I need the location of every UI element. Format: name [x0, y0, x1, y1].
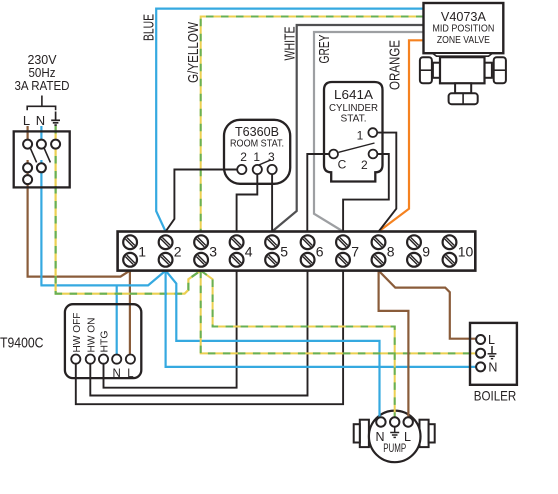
svg-text:10: 10	[458, 244, 474, 260]
wire: terminal 8 to pump L brown	[379, 271, 409, 419]
svg-text:5: 5	[280, 244, 288, 260]
wire: valve orange to terminal 8	[379, 40, 424, 231]
zone valve body icon	[420, 53, 506, 104]
svg-text:L641A: L641A	[334, 87, 373, 102]
svg-text:G/YELLOW: G/YELLOW	[185, 21, 202, 83]
ground symbol at boiler	[488, 346, 497, 359]
svg-text:HTG: HTG	[99, 331, 111, 353]
ground symbol at pump	[390, 427, 399, 438]
svg-text:N: N	[488, 361, 497, 375]
svg-text:9: 9	[422, 244, 430, 260]
ground symbol at supply	[51, 112, 60, 126]
cylinder stat L641A	[324, 82, 383, 182]
svg-text:L: L	[23, 113, 30, 128]
svg-text:L: L	[488, 333, 495, 347]
svg-text:T9400C: T9400C	[0, 335, 44, 352]
svg-text:N: N	[113, 368, 121, 380]
room stat T6360B	[224, 120, 290, 184]
svg-text:MID POSITION: MID POSITION	[432, 23, 494, 35]
wire: valve g/yellow to terminal 3	[201, 17, 424, 232]
power supply rating label	[15, 52, 70, 93]
svg-text:2: 2	[240, 150, 247, 164]
wire: supply N blue	[40, 126, 165, 359]
wire: earth terminal 3 to pump earth	[201, 271, 395, 419]
terminal 9 screws	[407, 235, 430, 266]
power supply isolator box	[14, 131, 70, 187]
svg-text:3: 3	[209, 244, 217, 260]
terminal 10 screws	[443, 235, 474, 266]
wire: valve grey to terminal 7	[314, 32, 424, 232]
pump body fill	[369, 411, 421, 463]
zone valve V4073A label box	[424, 3, 504, 53]
terminal strip junction box border	[118, 232, 476, 271]
programmer T9400C	[65, 304, 141, 380]
svg-text:ZONE VALVE: ZONE VALVE	[437, 34, 490, 46]
wire: terminal 7 to programmer HW OFF	[76, 271, 343, 405]
svg-text:2: 2	[361, 158, 368, 172]
power supply bracket	[27, 96, 55, 111]
svg-text:3A RATED: 3A RATED	[15, 78, 70, 93]
wire: valve white to terminal 5	[272, 25, 423, 232]
svg-text:1: 1	[253, 150, 260, 164]
terminal 4 screws	[230, 235, 253, 266]
svg-text:1: 1	[138, 244, 146, 260]
wire: terminal 4 to programmer HTG	[104, 271, 237, 388]
svg-text:BLUE: BLUE	[141, 14, 158, 41]
wire: room stat 1 to terminal 4	[237, 173, 258, 232]
wire: room stat 2 to terminal 2 (anticipator neutral)	[166, 170, 242, 232]
svg-text:GREY: GREY	[316, 35, 333, 64]
svg-text:7: 7	[351, 244, 359, 260]
terminal 5 screws	[265, 235, 288, 266]
svg-text:3: 3	[268, 150, 275, 164]
svg-text:8: 8	[387, 244, 395, 260]
svg-text:ROOM STAT.: ROOM STAT.	[230, 138, 284, 150]
wire: cylinder stat 2 to terminal 7	[343, 154, 389, 232]
svg-text:C: C	[338, 158, 347, 172]
boiler box	[470, 323, 517, 385]
wire: neutral terminal 2 to pump N	[166, 271, 380, 419]
wire: neutral bus terminal 2 to boiler N	[166, 271, 481, 367]
svg-text:BOILER: BOILER	[474, 388, 517, 404]
svg-text:PUMP: PUMP	[383, 441, 406, 455]
svg-text:ORANGE: ORANGE	[387, 40, 404, 90]
svg-text:STAT.: STAT.	[341, 112, 367, 124]
terminal 3 screws	[194, 235, 217, 266]
terminal 1 screws	[123, 235, 146, 266]
svg-text:N: N	[36, 113, 45, 128]
wire: room stat 3 to terminal 5	[271, 173, 273, 232]
wire: terminal 6 to programmer HW ON	[90, 271, 307, 396]
pump flange tabs	[354, 420, 435, 447]
svg-text:1: 1	[357, 129, 364, 143]
white fills of component bodies (drawn beneath wires)	[14, 82, 517, 385]
svg-text:HW OFF: HW OFF	[71, 313, 83, 353]
svg-text:6: 6	[316, 244, 324, 260]
wire: terminal 8 to boiler L brown	[379, 271, 481, 339]
wire: earth bus terminal 3 to boiler earth	[201, 271, 481, 354]
wire: valve blue to terminal 2	[156, 9, 423, 232]
terminal 8 screws	[372, 235, 395, 266]
wire: cylinder stat C to terminal 6	[307, 154, 333, 232]
svg-text:HW ON: HW ON	[85, 318, 97, 353]
svg-text:L: L	[127, 368, 134, 380]
terminal 7 screws	[336, 235, 359, 266]
svg-text:WHITE: WHITE	[282, 27, 299, 61]
wire: supply earth green/yellow	[55, 126, 201, 294]
wire: cylinder stat 1 to terminal 8	[373, 133, 397, 232]
svg-text:2: 2	[174, 244, 182, 260]
terminal 2 screws	[159, 235, 182, 266]
terminal 6 screws	[301, 235, 324, 266]
pump body outline	[375, 417, 412, 455]
wire: supply L brown	[28, 126, 130, 359]
svg-text:4: 4	[245, 244, 253, 260]
